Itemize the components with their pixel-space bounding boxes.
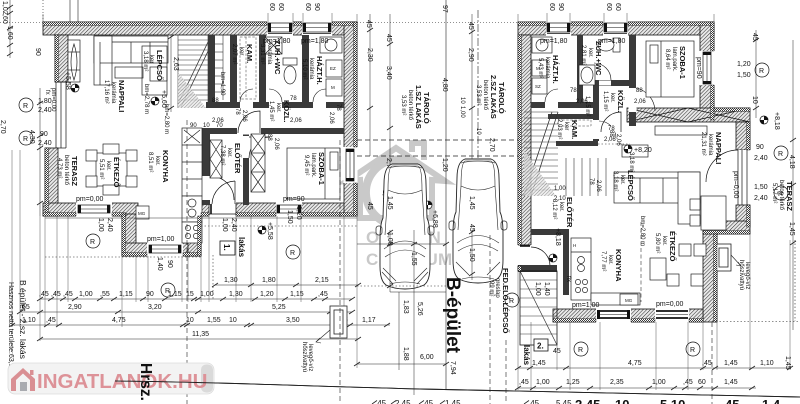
stair dim line 2,63 [168, 35, 174, 112]
svg-text:1,00: 1,00 [97, 218, 104, 232]
landing steps right building lower [566, 158, 606, 196]
washbasin HAZT [320, 37, 342, 53]
svg-text:70: 70 [216, 123, 223, 129]
partition ELOTER left [202, 128, 210, 205]
svg-text:6,00: 6,00 [420, 354, 434, 361]
svg-text:B épület - 2.sz. lakás: B épület - 2.sz. lakás [18, 280, 28, 359]
vertical extension lines below right building [518, 234, 790, 390]
tick marks bottom edge [372, 401, 529, 404]
partition SZOBA-1 left right-building [629, 35, 636, 126]
wall between SZOBA-1 and NAPPALI (with cross bracing) [627, 108, 750, 122]
svg-text:ker: ker [563, 122, 569, 130]
dotted line from KAM [598, 143, 630, 145]
sofa NAPPALI right [614, 172, 700, 224]
coffee table NAPPALI right [622, 145, 648, 157]
dimension line x370 [367, 14, 373, 156]
left margin R circle 1 [19, 98, 33, 112]
dim row 4: 1,10 45 4,75 10 1,55 10 3,50 45 1,17 [9, 323, 390, 327]
svg-text:ker.: ker. [609, 93, 615, 103]
svg-text:MG: MG [138, 211, 146, 216]
svg-text:60: 60 [268, 3, 275, 11]
svg-text:4,73 m²: 4,73 m² [56, 158, 62, 178]
survey marker +6,88 [424, 201, 432, 209]
left building left wall upper [55, 35, 68, 82]
toilet right building [598, 38, 620, 52]
svg-text:1,00: 1,00 [386, 232, 393, 246]
room label HAZT.H right [537, 55, 560, 84]
svg-text:NAPPALI: NAPPALI [117, 80, 126, 112]
long boundary line x446 with 97 [445, 0, 447, 390]
svg-text:5,80 m²: 5,80 m² [654, 233, 660, 253]
svg-text:2,90: 2,90 [467, 48, 474, 62]
svg-text:SZOBA-1: SZOBA-1 [678, 46, 687, 79]
svg-text:90: 90 [34, 48, 41, 56]
insulation bands right building [518, 22, 750, 322]
svg-text:1,00: 1,00 [459, 106, 465, 118]
svg-text:bm=2,80 m: bm=2,80 m [163, 104, 169, 134]
svg-text:2,40: 2,40 [106, 218, 113, 232]
dotted eave lines south [201, 225, 357, 227]
svg-text:60: 60 [614, 3, 621, 11]
svg-text:45: 45 [467, 22, 474, 30]
svg-text:1,10: 1,10 [760, 360, 774, 367]
svg-text:fix: fix [565, 276, 571, 282]
svg-text:,45: ,45 [519, 379, 529, 386]
svg-text:90: 90 [146, 291, 154, 298]
door gap ELOTER to KONYHA [202, 176, 211, 200]
svg-text:kerámia: kerámia [544, 57, 550, 79]
left building top wall [43, 22, 357, 35]
shower tub right building [579, 65, 595, 85]
svg-text:7,94: 7,94 [449, 361, 456, 375]
room label KOZL right [602, 90, 625, 113]
ETKEZO right wall [703, 234, 717, 322]
door dims small right building [554, 88, 646, 202]
svg-text:ker.: ker. [661, 236, 667, 246]
chimney symbol left wall [68, 40, 80, 82]
room label KOZL [268, 100, 291, 123]
svg-text:88: 88 [212, 98, 219, 104]
svg-text:1,00: 1,00 [652, 379, 666, 386]
KAM door gap right wall [593, 120, 600, 139]
svg-text:1,55: 1,55 [207, 317, 221, 324]
door arc ELOTER-KONYHA [210, 176, 234, 200]
svg-text:8,51 m²: 8,51 m² [147, 152, 153, 172]
room label ETKEZO [98, 157, 121, 188]
svg-text:ker.: ker. [619, 175, 625, 185]
svg-text:1,45: 1,45 [468, 196, 475, 210]
eaves dotted line between buildings [357, 22, 518, 24]
svg-text:pm=0,00: pm=0,00 [50, 88, 56, 112]
right building entry door in left wall [518, 245, 551, 266]
room label SZOBA-1 right [664, 46, 687, 79]
KAM shelf dashes right building [558, 120, 591, 126]
svg-text:7,77 m²: 7,77 m² [600, 251, 606, 271]
svg-text:1.: 1. [222, 244, 231, 251]
svg-text:3,40: 3,40 [385, 66, 392, 80]
svg-text:ker.: ker. [587, 48, 593, 58]
svg-text:7,38 m²: 7,38 m² [219, 145, 225, 165]
svg-text:10: 10 [615, 397, 629, 404]
svg-text:KAM.: KAM. [570, 120, 579, 139]
room label ETKEZO right [654, 231, 677, 262]
svg-text:R: R [90, 239, 95, 246]
svg-text:60: 60 [277, 3, 284, 11]
covered entry stairs FED.ELO.LEPCSO [520, 271, 557, 345]
room label ZUH+WC [259, 40, 282, 75]
svg-text:1,00: 1,00 [554, 186, 566, 192]
bottom wall window kitchen [596, 309, 631, 323]
room label NAPPALI right [700, 132, 723, 164]
svg-text:2,15: 2,15 [315, 277, 329, 284]
svg-text:1,83: 1,83 [402, 300, 409, 314]
svg-text:fx: fx [44, 90, 50, 95]
watermark Otthon Centrum logo [347, 143, 452, 269]
heat pump right building [716, 244, 741, 271]
svg-text:3,20: 3,20 [148, 304, 162, 311]
svg-text:LÉPCSŐ: LÉPCSŐ [155, 50, 164, 81]
right building left wall [518, 35, 531, 245]
kitchen counters KONYHA [182, 128, 202, 243]
svg-text:hőszivattyú: hőszivattyú [738, 260, 744, 290]
svg-text:KAM.: KAM. [245, 44, 254, 63]
right building east dim line [753, 30, 759, 118]
svg-text:3,31 m²: 3,31 m² [259, 44, 265, 64]
room label KAM right [556, 119, 579, 139]
svg-text:,45: ,45 [39, 291, 49, 298]
svg-text:2.SZ LAKÁS: 2.SZ LAKÁS [489, 75, 498, 119]
svg-text:,45: ,45 [528, 399, 540, 404]
svg-text:2,06: 2,06 [290, 118, 302, 124]
svg-text:1,4: 1,4 [762, 397, 781, 404]
svg-text:,45: ,45 [51, 291, 61, 298]
partition ELOTER bottom/konyha top [531, 229, 569, 235]
svg-text:1,02: 1,02 [1, 1, 8, 15]
room label ELOTER right [551, 197, 574, 228]
chimney vent lines to top edge [69, 0, 71, 22]
room label ELOTER [219, 143, 242, 174]
room label KONYHA right [600, 249, 623, 282]
svg-text:R: R [759, 68, 764, 75]
right building top wall window 1 [546, 22, 571, 36]
svg-text:+8,18: +8,18 [554, 228, 561, 246]
svg-text:1,00: 1,00 [536, 379, 550, 386]
wall ELOTER / outside stairs [518, 265, 557, 272]
svg-text:lakás: lakás [237, 237, 246, 258]
right building top wall window 2 [603, 22, 628, 36]
staircase left building [178, 35, 223, 108]
room label KONYHA [147, 150, 170, 183]
room label NAPPALI [103, 80, 126, 112]
room label SZOBA-1 left [303, 152, 326, 185]
svg-text:1,00: 1,00 [79, 291, 93, 298]
parking dim line y244 [357, 242, 449, 246]
stair hatch right building [524, 150, 556, 196]
svg-text:1,45: 1,45 [386, 196, 393, 210]
svg-text:,45: ,45 [422, 399, 434, 404]
dining table NAPPALI SE corner [690, 196, 726, 230]
svg-text:3,18 m²: 3,18 m² [142, 51, 148, 71]
svg-text:R: R [778, 191, 783, 198]
svg-text:2,30: 2,30 [366, 48, 373, 62]
ZUH bottom wall right-building [593, 80, 629, 86]
svg-text:bm=2,80 m: bm=2,80 m [639, 216, 645, 246]
svg-text:2,40: 2,40 [754, 195, 768, 202]
svg-text:60: 60 [698, 379, 706, 386]
svg-text:,45: ,45 [375, 399, 387, 404]
right building bottom wall [553, 309, 703, 322]
svg-text:,45: ,45 [702, 360, 712, 367]
svg-text:lakás: lakás [522, 345, 531, 366]
partition ELOTER right vertical [563, 229, 569, 295]
svg-text:1.SZ LAKÁS: 1.SZ LAKÁS [414, 85, 423, 129]
svg-text:45: 45 [385, 34, 392, 42]
svg-text:pm=90: pm=90 [695, 57, 702, 79]
svg-text:60: 60 [304, 3, 311, 11]
window extension lines above walls [43, 13, 714, 22]
svg-text:2,06: 2,06 [604, 137, 616, 143]
svg-text:HÁZT.H.: HÁZT.H. [315, 56, 324, 85]
svg-text:1,50: 1,50 [737, 72, 751, 79]
partition ZUH left [259, 35, 266, 102]
vertical dim lines through parking [387, 230, 475, 292]
car 2 (simple) [449, 159, 507, 283]
svg-text:5,10 m²: 5,10 m² [301, 59, 307, 79]
svg-text:kerámia: kerámia [110, 82, 116, 104]
wall NAPPALI/terrace horizontal [703, 221, 750, 234]
svg-text:,45: ,45 [318, 291, 328, 298]
partial bottom dimension row (cut off at page edge) [575, 397, 781, 404]
dotted terrace edge right [716, 321, 800, 323]
left building bottom wall (terrace + dining) [43, 203, 138, 216]
heat pump left building [316, 306, 347, 343]
svg-text:1,00: 1,00 [534, 282, 541, 296]
bedroom window pm=90 bottom wall [276, 203, 302, 217]
NAPPALI right wall lower [736, 205, 750, 227]
right building SZOBA-1 right wall [700, 22, 714, 120]
svg-text:pm=1,80: pm=1,80 [263, 38, 291, 45]
washbasin HAZT right [532, 37, 552, 53]
svg-text:+6,88: +6,88 [431, 210, 438, 228]
svg-text:pm=90: pm=90 [283, 196, 305, 203]
door gap KOZL right [600, 126, 622, 133]
svg-text:1,20: 1,20 [260, 291, 274, 298]
svg-text:1,50: 1,50 [754, 184, 768, 191]
svg-text:10: 10 [229, 317, 237, 324]
svg-text:2,06: 2,06 [595, 180, 601, 192]
door arc ELOTER-SZOBA [249, 137, 270, 158]
svg-text:beton térkő: beton térkő [407, 90, 413, 121]
svg-text:beton térkő: beton térkő [63, 155, 69, 186]
svg-text:MG: MG [625, 298, 633, 303]
svg-text:2,06: 2,06 [328, 112, 334, 124]
svg-text:,55: ,55 [100, 291, 110, 298]
svg-text:1,50: 1,50 [286, 210, 293, 224]
right building left wall stub below door [518, 266, 531, 271]
MG box kitchen [136, 206, 149, 219]
svg-text:88: 88 [266, 134, 272, 141]
svg-text:2,40: 2,40 [754, 155, 768, 162]
svg-text:5,43 m²: 5,43 m² [537, 58, 543, 78]
svg-text:3,53 m²: 3,53 m² [475, 85, 481, 105]
svg-text:1,50: 1,50 [468, 248, 475, 262]
svg-text:R: R [690, 347, 695, 354]
svg-text:4,75: 4,75 [628, 360, 642, 367]
svg-text:kerámia: kerámia [266, 43, 272, 65]
svg-text:2.: 2. [537, 342, 544, 351]
dim row 3: 65 2,90 3,20 5,25 [17, 310, 355, 314]
partition bottom of top rooms [531, 102, 599, 108]
top-left dotted lines [0, 22, 43, 24]
svg-text:TERASZ: TERASZ [70, 156, 79, 186]
svg-text:1,45: 1,45 [445, 399, 461, 404]
svg-text:1,40: 1,40 [543, 282, 550, 296]
svg-text:8,64 m²: 8,64 m² [664, 49, 670, 69]
KAM shelves dashed [240, 37, 256, 99]
svg-text:45: 45 [468, 224, 475, 232]
top window dim numbers left building [268, 3, 320, 11]
svg-text:88: 88 [608, 130, 614, 137]
svg-text:1,45: 1,45 [724, 379, 738, 386]
svg-text:78: 78 [570, 88, 577, 94]
svg-text:2,06: 2,06 [241, 110, 247, 122]
terrace door right building [706, 150, 751, 205]
entry door opening left building [209, 181, 236, 217]
svg-text:1,15 m²: 1,15 m² [584, 96, 590, 116]
stair under-hatch [178, 72, 206, 108]
washer boxes HAZT right [532, 60, 547, 94]
left margin dim lines [7, 0, 43, 216]
dimension line x390 [387, 14, 393, 230]
dim row 5: 11,35 [37, 337, 361, 341]
survey marker +8,20 [624, 145, 632, 153]
room label TERASZ [56, 155, 79, 186]
door gap KOZL to ELOTER [237, 128, 261, 135]
svg-text:5,51 m²: 5,51 m² [98, 159, 104, 179]
svg-text:HÁZT.H.: HÁZT.H. [551, 55, 560, 84]
svg-text:+5,60: +5,60 [160, 90, 167, 108]
property boundary wavy line [115, 381, 800, 397]
svg-text:2,70: 2,70 [0, 120, 6, 134]
svg-text:90: 90 [166, 260, 173, 268]
svg-text:ÉTKEZŐ: ÉTKEZŐ [112, 157, 121, 188]
svg-text:45: 45 [366, 202, 373, 210]
partition ZUH left right-building [577, 35, 583, 102]
sofa NAPPALI [94, 36, 168, 85]
room label TERASZ right [771, 180, 794, 211]
svg-text:R: R [509, 298, 514, 305]
room label HAZT.H [301, 56, 324, 85]
KAM top wall right-building [548, 114, 598, 119]
door dims small left building [190, 72, 341, 150]
svg-text:bm=1,90: bm=1,90 [219, 72, 225, 96]
svg-text:1,25: 1,25 [566, 379, 580, 386]
svg-text:90: 90 [557, 3, 564, 11]
dashed vertical lines bottom [186, 120, 188, 404]
svg-text:1,45: 1,45 [724, 360, 738, 367]
left building bottom wall right part [201, 203, 357, 216]
svg-text:45: 45 [725, 397, 739, 404]
svg-text:ZUH.+WC: ZUH.+WC [273, 40, 282, 75]
svg-text:lam.park.: lam.park. [310, 153, 316, 178]
svg-text:lam.park.: lam.park. [671, 47, 677, 72]
dining table ETKEZO [86, 144, 137, 195]
svg-text:5,45: 5,45 [556, 399, 572, 404]
svg-text:2,45: 2,45 [575, 397, 600, 404]
left margin dim texts top [0, 1, 41, 144]
bed SZOBA-1 right building [646, 41, 694, 97]
svg-text:5,10: 5,10 [660, 397, 685, 404]
apartment label 2 [522, 339, 548, 366]
svg-text:2,10: 2,10 [554, 196, 566, 202]
svg-text:4,18: 4,18 [788, 155, 795, 169]
svg-text:pm=1,00: pm=1,00 [572, 302, 600, 309]
svg-text:ker.: ker. [105, 161, 111, 171]
staircase right building [524, 112, 558, 196]
svg-text:10: 10 [475, 128, 481, 135]
room label KAM [231, 44, 254, 64]
TV cabinet NAPPALI right [655, 126, 707, 135]
KAM bottom wall right-building [556, 141, 598, 146]
svg-text:SZ: SZ [535, 84, 541, 89]
svg-text:3,53 m²: 3,53 m² [400, 95, 406, 115]
survey marker +8,18 stairs [549, 254, 557, 262]
terrace left wall [45, 148, 58, 216]
svg-text:ker.: ker. [226, 148, 232, 158]
shower ZUH [265, 37, 282, 54]
svg-text:3,50: 3,50 [286, 317, 300, 324]
kitchen bay left wall [122, 214, 136, 256]
svg-text:78: 78 [234, 108, 240, 115]
washer dryer HAZT [326, 60, 342, 96]
svg-text:B-épület: B-épület [442, 277, 463, 354]
dim row A right [515, 366, 793, 370]
svg-text:4,75: 4,75 [112, 317, 126, 324]
horizontal dim line 6,00 [354, 362, 449, 366]
svg-text:90: 90 [756, 144, 764, 151]
left margin R circle 2 [19, 131, 33, 145]
door arc KOZL-ELOTER [238, 111, 260, 133]
svg-text:,45: ,45 [46, 317, 56, 324]
NAPPALI right wall upper [736, 122, 750, 150]
top window dim numbers right building [548, 3, 621, 11]
svg-text:1,00: 1,00 [200, 291, 214, 298]
svg-text:5,25: 5,25 [272, 304, 286, 311]
TAROLO 1 label [400, 85, 431, 129]
svg-text:ELŐTÉR: ELŐTÉR [233, 143, 242, 174]
svg-text:88: 88 [636, 88, 643, 94]
svg-text:2,06: 2,06 [273, 138, 279, 150]
svg-text:ELŐTÉR: ELŐTÉR [565, 197, 574, 228]
car 1 (detailed) [376, 164, 434, 289]
svg-text:90: 90 [190, 123, 197, 129]
svg-text:10: 10 [203, 123, 210, 129]
KOZL left wall right-building [593, 80, 599, 141]
survey marker +8,18 NE [760, 116, 768, 124]
svg-text:78: 78 [588, 178, 594, 185]
right wall window SZOBA-1 [700, 51, 715, 85]
svg-text:4,80: 4,80 [441, 78, 448, 92]
svg-text:2,63: 2,63 [172, 57, 179, 71]
svg-text:1,40: 1,40 [156, 257, 163, 271]
door gap ELOTER to SZOBA-1 [243, 136, 250, 158]
armchair NAPPALI [150, 67, 167, 81]
svg-text:,60: ,60 [1, 14, 8, 24]
svg-text:17,16 m²: 17,16 m² [103, 80, 109, 104]
svg-text:2,03 m²: 2,03 m² [556, 119, 562, 139]
svg-text:1,15: 1,15 [290, 291, 304, 298]
svg-text:+8,20: +8,20 [634, 147, 652, 154]
